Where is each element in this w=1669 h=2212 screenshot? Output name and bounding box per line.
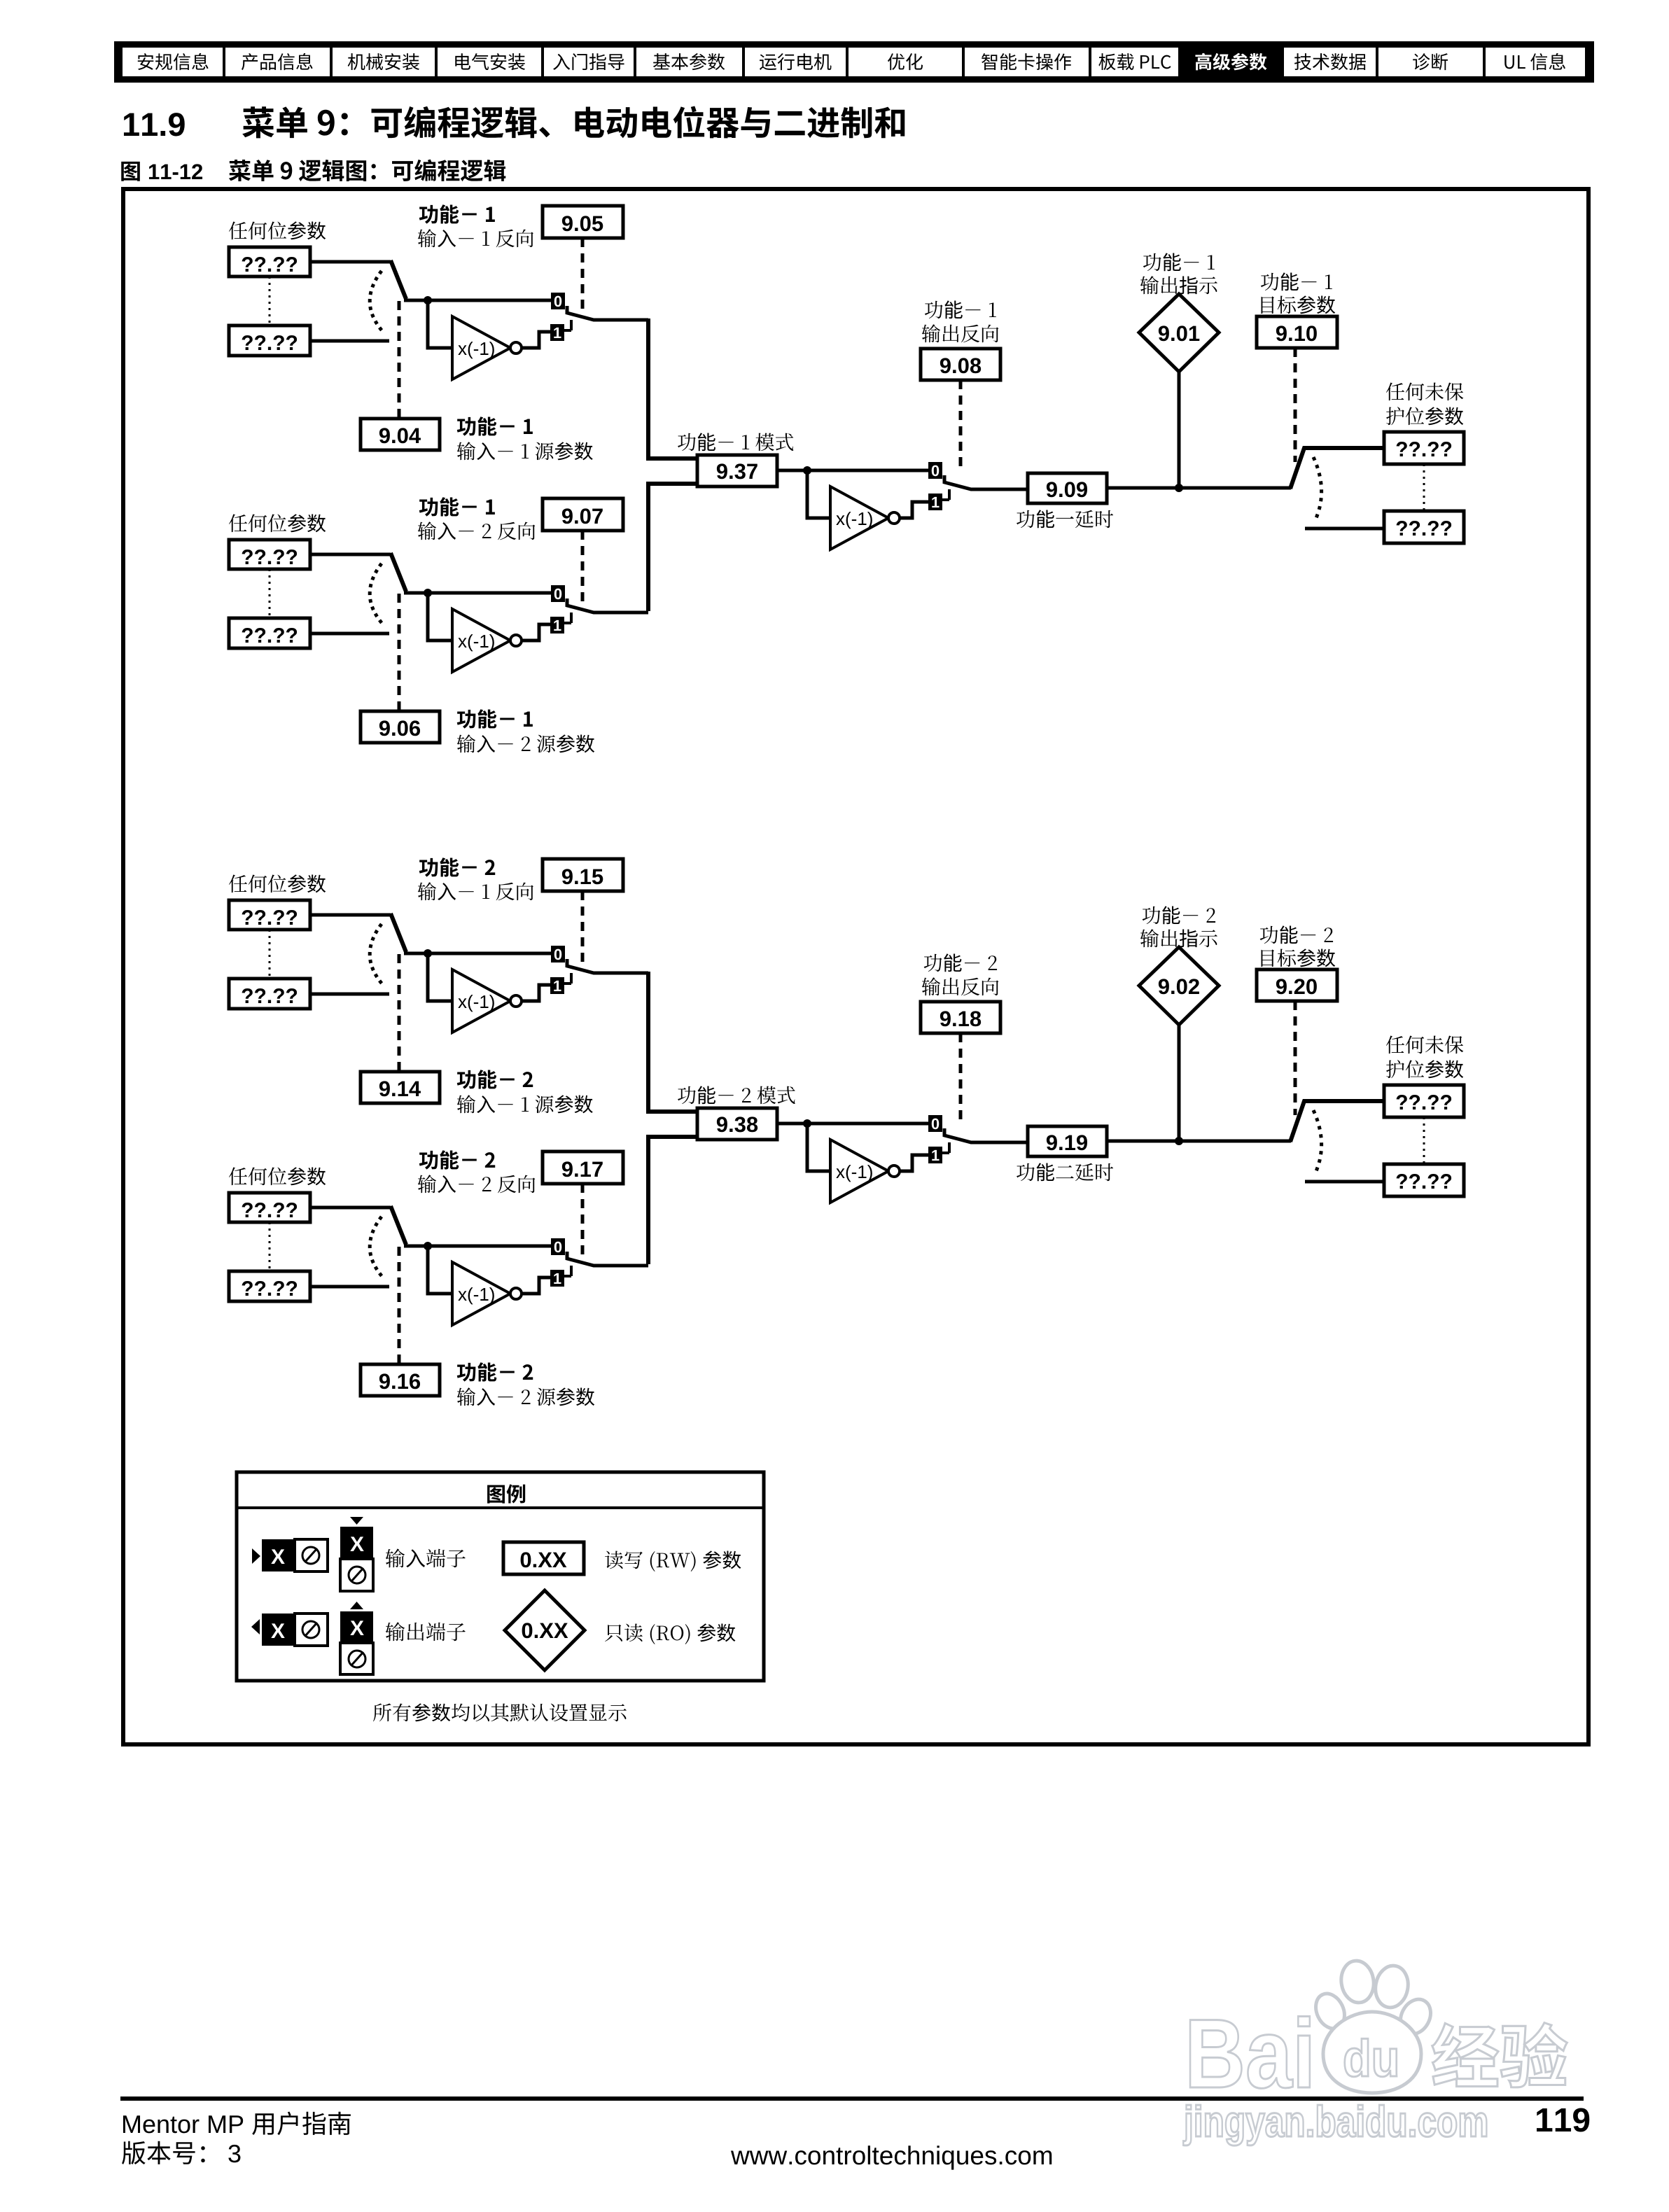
label 功能-1 输出指示	[1143, 253, 1215, 271]
figure caption 图 11-12	[121, 162, 140, 181]
inverter output circle	[510, 995, 522, 1007]
nav tab 入门指导	[553, 53, 624, 70]
switch contact 0	[551, 946, 565, 962]
dashed control line from 9.07	[581, 531, 585, 602]
node ??.?? source bit parameter 1	[229, 247, 310, 276]
wire to output inverter	[807, 1123, 832, 1171]
wire from source parameter 1	[310, 260, 391, 264]
wire inverter to contact 1	[900, 502, 928, 518]
wire to inverter	[428, 1246, 454, 1294]
dotted link between source parameters	[269, 276, 271, 325]
label 功能-1 输入-2 反向	[419, 497, 495, 516]
contact 0 terminal mark and blade to bus	[567, 959, 648, 973]
wire mode box to output switch	[777, 1122, 928, 1126]
label 任何位参数	[229, 874, 326, 892]
output switch contact 1	[928, 1147, 942, 1163]
selector blade	[391, 1206, 406, 1245]
dotted link between source parameters	[269, 569, 271, 618]
inverter output circle	[510, 635, 522, 646]
dashed control line from 9.05	[581, 238, 585, 309]
node ??.?? destination parameter	[1384, 432, 1464, 464]
legend input terminal symbol	[252, 1548, 260, 1564]
legend RW parameter box 0.XX	[503, 1542, 584, 1574]
parameter box 9.19 delay	[1028, 1126, 1107, 1156]
nav tab 机械安装	[348, 53, 419, 70]
inverter x(-1)	[452, 609, 510, 672]
legend label 读写 (RW) 参数	[605, 1550, 741, 1571]
node ??.?? source bit parameter 1	[229, 900, 310, 930]
label 功能二延时	[1017, 1163, 1113, 1181]
legend label 输入端子	[386, 1548, 466, 1567]
wire from source parameter 1	[310, 1206, 391, 1210]
navigation tab bar	[114, 41, 1594, 83]
switch contact 1	[550, 1270, 564, 1287]
nav tab 技术数据	[1294, 53, 1366, 70]
watermark paw toes	[1311, 1989, 1350, 2033]
label 功能一延时	[1017, 510, 1113, 528]
dashed control line from 9.15	[581, 891, 585, 962]
node ??.?? source bit parameter 1	[229, 1193, 310, 1222]
selector blade	[391, 913, 406, 952]
nav tab UL 信息	[1504, 53, 1565, 70]
legend box 图例	[237, 1472, 764, 1681]
junction	[424, 1242, 432, 1250]
wire mode box to output switch	[777, 469, 928, 472]
parameter box 9.08 output invert	[921, 349, 1000, 380]
label 任何位参数	[229, 221, 326, 239]
contact 0 terminal mark and blade to bus	[567, 306, 648, 320]
selector arc	[370, 1217, 384, 1278]
wire inverter to contact 1	[522, 1277, 550, 1294]
wire to switch contact 0	[404, 591, 551, 595]
dotted link between source parameters	[269, 930, 271, 979]
legend RO diamond 0.XX	[505, 1590, 585, 1670]
node ??.?? alternate destination	[1384, 1164, 1464, 1196]
switch contact 1	[550, 324, 564, 341]
label 功能-2 输入-1 源参数	[457, 1070, 533, 1088]
watermark du text	[1345, 2038, 1397, 2076]
output switch contact 0	[928, 462, 942, 479]
label 任何未保护位参数	[1386, 383, 1463, 401]
label 功能-2 输入-1 反向	[419, 857, 495, 876]
contact 1 terminal mark	[564, 973, 571, 983]
contact 1 terminal mark	[564, 320, 571, 330]
legend output terminal symbol	[251, 1619, 260, 1634]
parameter box 9.05 invert select	[543, 206, 623, 238]
nav tab 安规信息	[138, 53, 209, 70]
inverter x(-1)	[452, 316, 510, 379]
dashed control line from 9.08	[959, 380, 963, 468]
dotted link between source parameters	[269, 1222, 271, 1271]
wire to switch contact 0	[404, 299, 551, 302]
switch contact 0	[551, 293, 565, 309]
contact 0 terminal mark and blade to bus	[567, 598, 648, 612]
switch contact 0	[551, 585, 565, 602]
legend label 输出端子	[386, 1622, 466, 1641]
bus input2 to mode box	[648, 484, 697, 611]
dashed control line from 9.04	[398, 301, 401, 419]
label 功能-1 输入-1 反向	[419, 204, 495, 223]
junction	[424, 296, 432, 304]
parameter box 9.18 output invert	[921, 1002, 1000, 1033]
dashed control line from 9.20	[1294, 1001, 1297, 1115]
selector blade	[391, 260, 406, 299]
parameter box 9.17 invert select	[543, 1151, 623, 1184]
wire from source parameter 1	[310, 913, 391, 917]
contact 0 mark and blade to delay box	[944, 1128, 1028, 1142]
footer Mentor MP 用户指南	[123, 2115, 243, 2133]
wire inverter to contact 1	[522, 332, 550, 348]
junction	[424, 589, 432, 597]
contact 0 mark and blade to delay box	[944, 475, 1028, 489]
diamond stem	[1178, 372, 1181, 488]
nav tab 板载 PLC	[1098, 53, 1171, 70]
legend note 所有参数均以其默认设置显示	[373, 1703, 627, 1721]
destination selector arc	[1313, 457, 1322, 518]
inverter x(-1)	[452, 1262, 510, 1325]
dotted link between destination parameters	[1423, 1117, 1425, 1164]
label 功能-2 输出反向	[924, 953, 997, 972]
junction under indicator diamond	[1175, 1137, 1183, 1145]
diagram border frame	[123, 189, 1588, 1744]
switch contact 1	[550, 617, 564, 633]
footer url	[731, 2145, 1052, 2169]
selector arc	[370, 563, 384, 625]
wire delay to destination selector	[1107, 1140, 1291, 1143]
node ??.?? alternate destination	[1384, 511, 1464, 543]
output inverter circle	[888, 1165, 900, 1177]
node ??.?? source bit parameter 1	[229, 540, 310, 569]
footer rule	[120, 2096, 1584, 2101]
parameter box 9.07 invert select	[543, 498, 623, 531]
dashed control line from 9.18	[959, 1033, 963, 1121]
selector arc	[370, 271, 384, 332]
contact 1 terminal mark	[564, 1266, 571, 1276]
output switch contact 1	[928, 493, 942, 510]
junction	[803, 1119, 811, 1128]
nav tab 智能卡操作	[982, 53, 1071, 70]
destination selector arc	[1313, 1110, 1322, 1171]
nav tab 产品信息	[242, 53, 313, 70]
dashed control line from 9.06	[398, 594, 401, 711]
wire to inverter	[428, 300, 454, 348]
wire delay to destination selector	[1107, 486, 1291, 490]
wire inverter to contact 1	[900, 1155, 928, 1171]
diamond stem	[1178, 1025, 1181, 1141]
legend label 只读 (RO) 参数	[605, 1623, 735, 1644]
output inverter x(-1)	[830, 486, 888, 549]
nav tab 高级参数 (active)	[1195, 53, 1266, 71]
stub wire to unused destination	[1305, 527, 1384, 531]
inverter output circle	[510, 1288, 522, 1299]
label 功能-1 输入-2 源参数	[457, 709, 533, 728]
node ??.?? destination parameter	[1384, 1085, 1464, 1117]
parameter box 9.10 destination	[1257, 316, 1337, 348]
parameter box 9.04 source select	[361, 419, 440, 450]
label 功能-1 模式	[678, 433, 793, 451]
nav tab 诊断	[1413, 53, 1448, 70]
watermark baidu logo text	[1190, 2017, 1310, 2089]
section heading 11.9	[124, 113, 185, 136]
bus input1 to mode box	[648, 972, 697, 1112]
parameter box 9.09 delay	[1028, 473, 1107, 503]
wire to switch contact 0	[404, 1245, 551, 1248]
watermark jingyan.baidu.com	[1183, 2105, 1486, 2145]
destination selector blade	[1290, 448, 1384, 489]
node ??.?? source bit parameter 2	[229, 1271, 310, 1301]
contact 1 terminal mark	[942, 1142, 949, 1153]
node ??.?? source bit parameter 2	[229, 618, 310, 648]
label 功能-2 输入-2 源参数	[457, 1362, 533, 1381]
watermark paw pad	[1323, 2012, 1421, 2093]
footer 版本号：3	[122, 2141, 205, 2164]
page number 119	[1537, 2108, 1589, 2131]
wire to inverter	[428, 593, 454, 640]
parameter box 9.14 source select	[361, 1072, 440, 1103]
wire to output inverter	[807, 470, 832, 518]
parameter box 9.06 source select	[361, 711, 440, 743]
parameter box 9.15 invert select	[543, 859, 623, 891]
label 任何位参数	[229, 1167, 326, 1185]
wire from source parameter 2	[310, 632, 389, 636]
bus input1 to mode box	[648, 318, 697, 458]
active tab 高级参数	[1180, 41, 1283, 83]
label 任何未保护位参数	[1386, 1036, 1463, 1054]
dashed control line from 9.17	[581, 1184, 585, 1255]
watermark 经验	[1432, 2023, 1567, 2087]
bus input2 to mode box	[648, 1137, 697, 1264]
wire to inverter	[428, 953, 454, 1001]
dashed control line from 9.10	[1294, 348, 1297, 462]
node ??.?? source bit parameter 2	[229, 325, 310, 356]
output switch contact 0	[928, 1115, 942, 1132]
label 任何位参数	[229, 514, 326, 532]
output inverter circle	[888, 512, 900, 524]
switch contact 1	[550, 977, 564, 994]
switch contact 0	[551, 1238, 565, 1255]
node ??.?? source bit parameter 2	[229, 979, 310, 1009]
parameter box 9.20 destination	[1257, 969, 1337, 1001]
contact 1 terminal mark	[942, 489, 949, 500]
wire to switch contact 0	[404, 952, 551, 955]
parameter box 9.37 mode	[697, 455, 777, 486]
destination selector blade	[1290, 1101, 1384, 1142]
parameter box 9.38 mode	[697, 1108, 777, 1140]
wire from source parameter 2	[310, 1285, 389, 1289]
selector arc	[370, 924, 384, 986]
stub wire to unused destination	[1305, 1180, 1384, 1184]
nav tab 运行电机	[760, 53, 831, 70]
dotted link between destination parameters	[1423, 464, 1425, 511]
parameter box 9.16 source select	[361, 1364, 440, 1396]
nav tab 优化	[888, 53, 923, 70]
wire from source parameter 2	[310, 339, 389, 343]
selector blade	[391, 553, 406, 591]
RO diamond 9.02 output indicator	[1139, 947, 1219, 1025]
label 功能-1 输入-1 源参数	[457, 416, 533, 435]
label 功能-1 输出反向	[925, 300, 996, 318]
label 功能-1 目标参数	[1261, 272, 1332, 290]
dashed control line from 9.14	[398, 954, 401, 1072]
nav tab 电气安装	[455, 53, 525, 70]
label 功能-2 输出指示	[1143, 906, 1215, 924]
dashed control line from 9.16	[398, 1247, 401, 1364]
contact 1 terminal mark	[564, 612, 571, 623]
junction	[803, 466, 811, 475]
wire from source parameter 2	[310, 993, 389, 996]
label 功能-2 模式	[678, 1086, 795, 1104]
wire from source parameter 1	[310, 553, 391, 556]
label 功能-2 输入-2 反向	[419, 1150, 495, 1169]
nav tab 基本参数	[653, 53, 725, 70]
label 功能-2 目标参数	[1260, 925, 1333, 944]
junction	[424, 949, 432, 958]
contact 0 terminal mark and blade to bus	[567, 1252, 648, 1266]
wire inverter to contact 1	[522, 624, 550, 640]
junction under indicator diamond	[1175, 484, 1183, 492]
inverter x(-1)	[452, 969, 510, 1032]
wire inverter to contact 1	[522, 985, 550, 1001]
RO diamond 9.01 output indicator	[1139, 294, 1219, 372]
inverter output circle	[510, 342, 522, 353]
output inverter x(-1)	[830, 1140, 888, 1203]
